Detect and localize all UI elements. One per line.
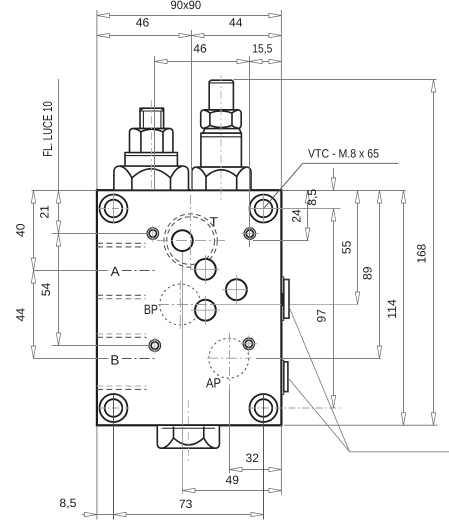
side port tab 1 outer plate bbox=[282, 277, 284, 321]
svg-text:44: 44 bbox=[229, 16, 243, 30]
B line extension right (89 ref) bbox=[256, 358, 381, 360]
extension line screw hole lower row left (54 end) bbox=[52, 345, 149, 347]
leader line from tab 2 bbox=[288, 378, 350, 452]
B label dash-dot line bbox=[122, 358, 156, 360]
arrows row3 bbox=[155, 59, 168, 63]
leader line from tab 1 bbox=[289, 307, 350, 452]
svg-text:40: 40 bbox=[13, 223, 27, 237]
svg-text:168: 168 bbox=[414, 244, 428, 264]
arrow 8,5 bottom outside bbox=[84, 512, 97, 516]
A label dash-dot line bbox=[122, 270, 157, 272]
arrows 44 bbox=[31, 271, 35, 284]
svg-text:21: 21 bbox=[38, 205, 52, 219]
mounting hole bottom-left bbox=[100, 394, 128, 422]
AP cavity dashed circle bbox=[209, 338, 249, 378]
arrows 55 bbox=[355, 191, 359, 204]
cartridge valve V2 flange bbox=[203, 129, 241, 134]
extension line left edge top bbox=[96, 10, 98, 189]
T cavity dashed circles bbox=[164, 214, 217, 267]
dimension line 90x90 bbox=[97, 15, 282, 17]
cartridge valve V2 (right) base hex bbox=[192, 167, 251, 191]
cartridge valve V1 lock nut hex bbox=[130, 128, 173, 152]
extension line AP axis bottom (32 ref) bbox=[229, 390, 231, 473]
arrows 168 bbox=[431, 80, 435, 93]
svg-text:15,5: 15,5 bbox=[252, 41, 272, 55]
arrows row2 bbox=[97, 33, 110, 37]
dimension line 114 bbox=[403, 191, 405, 426]
BP cavity horizontal center line (55 ref) bbox=[158, 304, 212, 306]
side port tab 2 plug bbox=[284, 362, 288, 392]
svg-text:114: 114 bbox=[385, 299, 399, 319]
dimension line 46 / 15,5 bbox=[155, 61, 282, 63]
svg-text:97: 97 bbox=[314, 309, 328, 323]
hidden passage dashes row 2 bbox=[97, 294, 146, 296]
screw hole top-right bbox=[244, 228, 256, 240]
dimension line 89 bbox=[379, 191, 381, 359]
arrows 21 bbox=[56, 191, 60, 204]
dimension line 168 bbox=[433, 80, 435, 426]
port center circle bbox=[226, 279, 247, 300]
dimension line 21 and 54 bbox=[58, 191, 60, 346]
cartridge valve V2 threaded stem bbox=[209, 80, 233, 110]
extension line block top right (ref) bbox=[281, 190, 405, 192]
port A center cross bbox=[191, 268, 220, 270]
dimension line 24 bbox=[307, 191, 309, 241]
BP cavity dashed circle bbox=[160, 284, 201, 325]
arrows 54 bbox=[56, 234, 60, 247]
T cavity horizontal center line bbox=[157, 240, 227, 242]
svg-text:73: 73 bbox=[179, 497, 193, 511]
arrows 114 bbox=[401, 191, 405, 204]
arrows 8,5 right bbox=[331, 178, 335, 191]
svg-text:89: 89 bbox=[361, 266, 375, 280]
cartridge V1 axis center line bbox=[151, 100, 153, 189]
extension line block bottom right bbox=[284, 424, 438, 426]
arrows 89 bbox=[377, 191, 381, 204]
side port tab 1 seal strip bbox=[282, 293, 284, 306]
VTC leader underline bbox=[303, 162, 399, 164]
cartridge V2 axis center line bbox=[220, 75, 222, 202]
extension line V1 axis top bbox=[154, 56, 156, 190]
svg-text:24: 24 bbox=[290, 209, 304, 223]
svg-text:B: B bbox=[110, 352, 119, 367]
cartridge valve V1 washer plate bbox=[125, 153, 177, 167]
valve body block bbox=[97, 190, 282, 425]
svg-text:FL. LUCE 10: FL. LUCE 10 bbox=[40, 101, 55, 157]
svg-text:54: 54 bbox=[39, 282, 53, 296]
extension line left hole axis bottom bbox=[113, 394, 115, 520]
extension line screw hole row left (21/54 junction) bbox=[52, 233, 147, 235]
extension line port column bottom (49 ref) bbox=[182, 252, 184, 494]
svg-text:T: T bbox=[210, 215, 218, 230]
extension line T center right (24 ref) bbox=[253, 240, 309, 242]
dimension line 32 bbox=[230, 469, 282, 471]
svg-text:8,5: 8,5 bbox=[305, 188, 319, 205]
arrows 73 bbox=[114, 512, 127, 516]
extension line T axis top bbox=[191, 30, 193, 190]
extension line above 21 (FL LUCE) bbox=[58, 79, 60, 191]
port P (on T line) bbox=[172, 230, 193, 251]
side port tab 2 outer plate bbox=[282, 360, 284, 394]
extension line right hole axis bottom bbox=[263, 394, 265, 520]
mounting hole top-left bbox=[100, 195, 128, 223]
hidden passage dashes row 4 bbox=[97, 385, 147, 387]
extension line left edge bottom bbox=[96, 426, 98, 520]
dimension line 46 / 44 bbox=[97, 35, 282, 37]
svg-text:32: 32 bbox=[246, 451, 260, 465]
cartridge valve V1 (left relief valve) base hex bbox=[114, 166, 189, 191]
dimension line 55 bbox=[357, 191, 359, 305]
T axis center line inside block bbox=[190, 195, 192, 270]
svg-text:46: 46 bbox=[193, 41, 207, 55]
svg-text:49: 49 bbox=[226, 473, 240, 487]
port A circle bbox=[195, 259, 216, 280]
svg-text:8,5: 8,5 bbox=[59, 496, 76, 510]
svg-text:46: 46 bbox=[136, 16, 150, 30]
svg-text:A: A bbox=[111, 264, 120, 279]
extension line block top left bbox=[32, 190, 97, 192]
bottom plug axis center line bbox=[187, 400, 189, 461]
dimension line 97 bbox=[333, 209, 335, 409]
hidden passage dashes row 1 bbox=[97, 242, 146, 244]
svg-text:55: 55 bbox=[339, 240, 353, 254]
svg-text:90x90: 90x90 bbox=[171, 0, 202, 12]
port BP center cross bbox=[191, 309, 220, 311]
screw hole bottom-left bbox=[149, 340, 161, 352]
port center cross mid port bbox=[222, 289, 248, 291]
port BP circle bbox=[195, 300, 216, 321]
extension line right edge bottom bbox=[280, 425, 282, 494]
bottom drain plug hex bbox=[157, 426, 219, 448]
arrows 24 bbox=[305, 191, 309, 204]
svg-text:VTC - M.8 x 65: VTC - M.8 x 65 bbox=[308, 147, 379, 161]
dimension line 40 and 44 bbox=[33, 191, 35, 359]
VTC leader diagonal to hole bbox=[264, 163, 303, 208]
dimension line 49 bbox=[183, 490, 282, 492]
AP cavity horizontal center line bbox=[207, 357, 251, 359]
arrow 97 bottom bbox=[331, 396, 335, 409]
dimension line 8,5 upper seg bbox=[333, 168, 335, 191]
mounting hole bottom-right bbox=[250, 394, 278, 422]
side port tab 1 plug bbox=[284, 280, 289, 319]
A line extension left bbox=[34, 270, 109, 272]
svg-text:BP: BP bbox=[144, 302, 158, 317]
hidden passage dashes row 3 bbox=[97, 333, 147, 335]
extension line right edge top bbox=[280, 10, 282, 189]
extension line screw-hole column top bbox=[249, 56, 251, 247]
mounting hole top-right bbox=[250, 195, 278, 223]
arrows 40 bbox=[31, 191, 35, 204]
screw hole top-left bbox=[147, 228, 159, 240]
AP cavity vertical center line bbox=[229, 333, 231, 390]
arrows 32 bbox=[230, 467, 243, 471]
svg-text:44: 44 bbox=[13, 308, 27, 322]
extension line V2 stem top (168 ref) bbox=[233, 79, 436, 81]
arrows 49 bbox=[183, 488, 196, 492]
cartridge valve V2 lock nut hex bbox=[201, 110, 242, 129]
cartridge valve V2 body cylinder bbox=[201, 133, 242, 167]
screw hole bottom-right bbox=[243, 338, 255, 350]
cartridge valve V1 adjusting screw head bbox=[140, 108, 164, 128]
dimension line 73 and 8,5 bbox=[82, 514, 264, 516]
BP cavity vertical center line bbox=[179, 281, 181, 331]
leader line horizontal to edge bbox=[350, 451, 449, 453]
svg-text:AP: AP bbox=[206, 375, 221, 390]
arrows row1 bbox=[97, 13, 110, 17]
B line extension left bbox=[34, 358, 109, 360]
